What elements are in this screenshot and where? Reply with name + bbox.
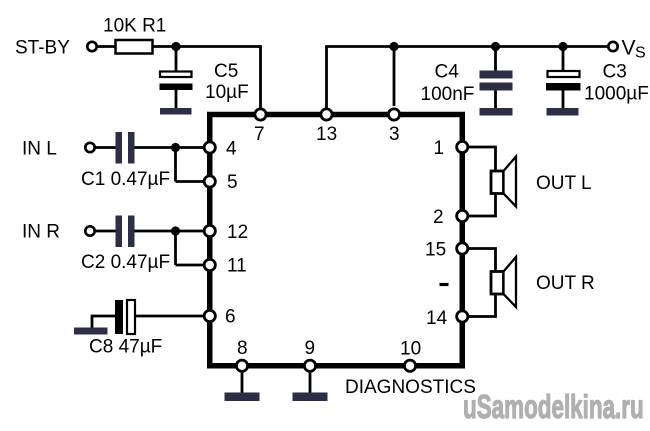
capacitor C5 (160, 72, 193, 91)
pin 9 (304, 360, 315, 371)
wire pin 9 to ground (309, 371, 312, 394)
svg-text:10: 10 (400, 339, 421, 360)
svg-text:4: 4 (226, 139, 237, 160)
svg-text:C4: C4 (435, 62, 460, 83)
IC U1 power amplifier body (210, 115, 463, 366)
pin 6 (204, 310, 215, 321)
wire junction to C4 (494, 47, 497, 73)
wire junction to C3 (562, 47, 565, 73)
svg-text:IN R: IN R (22, 222, 60, 243)
svg-text:10K R1: 10K R1 (103, 16, 166, 37)
wire Vs rail to pin 13 (327, 47, 609, 110)
pin 8 (236, 360, 247, 371)
terminal Vs (608, 42, 617, 51)
svg-text:10µF: 10µF (205, 82, 249, 103)
svg-text:13: 13 (316, 124, 337, 145)
wire junction down (174, 148, 177, 182)
svg-text:8: 8 (237, 338, 248, 359)
pin 10 (404, 360, 415, 371)
resistor R1 (116, 40, 153, 54)
svg-text:3: 3 (389, 124, 400, 145)
ground at C8 (74, 328, 108, 335)
svg-text:C1 0.47µF: C1 0.47µF (81, 169, 170, 190)
wire to pin 5 (176, 180, 205, 183)
capacitor C2 (116, 216, 135, 248)
pin 5 (204, 176, 215, 187)
wire C2 to pin 12 (135, 230, 205, 233)
svg-text:100nF: 100nF (421, 84, 475, 105)
ground below C5 (160, 108, 192, 115)
svg-text:ST-BY: ST-BY (15, 38, 70, 59)
svg-text:C8 47µF: C8 47µF (89, 337, 162, 358)
svg-text:12: 12 (227, 222, 248, 243)
junction rail/C4 (491, 42, 500, 51)
pin 14 (457, 311, 468, 322)
svg-text:OUT R: OUT R (536, 273, 595, 294)
svg-text:2: 2 (433, 207, 444, 228)
pin 12 (204, 225, 215, 236)
capacitor C4 (480, 71, 513, 91)
wire C4 to ground (494, 91, 497, 110)
terminal IN L (85, 143, 94, 152)
svg-text:7: 7 (254, 124, 265, 145)
ground below C4 (480, 108, 513, 116)
wire pin 8 to ground (241, 371, 244, 394)
pin 13 (321, 109, 332, 120)
wire pin 15 to speaker R top (468, 249, 496, 273)
ground below pin 8 (225, 393, 260, 402)
capacitor C3 (546, 71, 581, 91)
svg-text:14: 14 (426, 308, 448, 329)
ground below pin 9 (293, 393, 328, 402)
svg-text:uSamodelkina.ru: uSamodelkina.ru (463, 388, 644, 425)
wire pin 2 to speaker L bottom (468, 192, 496, 216)
speaker OUT L (491, 157, 516, 207)
minus sign (440, 283, 449, 286)
wire pin 14 to speaker R bottom (468, 293, 496, 317)
wire junction to C5 (175, 47, 178, 73)
wire pin 1 to speaker L top (468, 147, 496, 172)
junction C2 node (171, 226, 180, 235)
wire R1 to pin 7 (153, 47, 261, 110)
wire ground up to C8 (92, 316, 115, 328)
svg-text:C3: C3 (603, 62, 627, 83)
speaker OUT R (491, 257, 516, 307)
svg-text:1000µF: 1000µF (584, 84, 649, 105)
svg-text:9: 9 (305, 338, 316, 359)
svg-text:1: 1 (434, 138, 445, 159)
pin 7 (255, 109, 266, 120)
svg-text:DIAGNOSTICS: DIAGNOSTICS (345, 377, 476, 398)
svg-text:V: V (622, 37, 636, 60)
svg-text:6: 6 (225, 307, 236, 328)
ground below C3 (547, 108, 579, 116)
svg-text:OUT L: OUT L (536, 173, 592, 194)
svg-text:C2 0.47µF: C2 0.47µF (81, 252, 170, 273)
wire ST-BY terminal to R1 (97, 45, 116, 48)
wire C8 to pin 6 (135, 315, 204, 318)
pin 2 (457, 210, 468, 221)
wire IN L to C1 (95, 146, 116, 149)
pin 4 (204, 142, 215, 153)
svg-text:S: S (635, 45, 646, 62)
wire junction down (174, 231, 177, 265)
pin 1 (457, 141, 468, 152)
wire C5 to ground (175, 90, 178, 109)
wire to pin 11 (176, 264, 205, 267)
junction C1 node (171, 143, 180, 152)
svg-text:15: 15 (425, 240, 446, 261)
wire down to pin 3 (393, 47, 396, 107)
svg-text:C5: C5 (214, 61, 238, 82)
capacitor C1 (116, 132, 135, 164)
wire C1 to pin 4 (135, 146, 205, 149)
pin 15 (457, 243, 468, 254)
wire IN R to C2 (95, 230, 116, 233)
pin 3 (388, 109, 399, 120)
junction rail/pin3 (389, 42, 398, 51)
svg-text:IN L: IN L (22, 139, 57, 160)
capacitor C8 (115, 300, 135, 334)
svg-text:5: 5 (227, 172, 238, 193)
svg-text:11: 11 (227, 256, 247, 277)
junction R1/C5 (171, 42, 180, 51)
terminal ST-BY (87, 42, 96, 51)
pin 11 (204, 259, 215, 270)
junction rail/C3 (558, 42, 567, 51)
wire C3 to ground (562, 91, 565, 110)
terminal IN R (85, 226, 94, 235)
